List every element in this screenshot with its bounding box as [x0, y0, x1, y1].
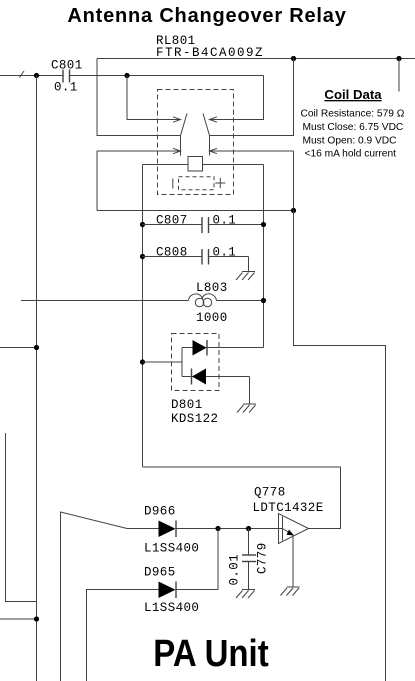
svg-text:Must Close: 6.75 VDC: Must Close: 6.75 VDC	[303, 122, 404, 133]
wire stub down from top right node	[398, 59, 400, 92]
node dot junction at 127	[124, 73, 129, 78]
wire top horizontal net	[97, 58, 415, 60]
diode D801 top	[182, 340, 264, 356]
ground for D801	[237, 404, 256, 413]
wire D801 bracket	[181, 348, 183, 377]
wire D965 up to junction	[176, 529, 218, 590]
svg-text:Must Open: 0.9 VDC: Must Open: 0.9 VDC	[303, 136, 397, 147]
svg-text:L1SS400: L1SS400	[144, 542, 199, 556]
svg-text:D965: D965	[144, 566, 176, 580]
coil polarity tick	[172, 179, 174, 189]
wire chain bottom to transistor collector	[143, 467, 341, 529]
capacitor C779	[228, 529, 270, 590]
node dot top at relay right	[291, 56, 296, 61]
capacitor C808	[140, 246, 249, 272]
ground for Q778 emitter	[281, 587, 300, 596]
svg-text:C779: C779	[256, 542, 270, 574]
wire arrow into left contact bottom	[97, 150, 180, 152]
wire arrow into right contact top	[210, 76, 264, 120]
arrowhead right top	[210, 117, 218, 122]
wire relay bottom rail	[97, 210, 294, 212]
svg-text:Coil Data: Coil Data	[324, 87, 382, 102]
wire relay common down right side	[294, 211, 386, 681]
wire left vertical long	[36, 76, 38, 681]
node dot D965 junction	[215, 526, 220, 531]
coil polarity plus sign	[215, 178, 225, 188]
svg-text:C801: C801	[51, 59, 83, 73]
wire arrow into right contact bottom	[210, 150, 294, 152]
ground for C808	[236, 272, 255, 281]
wire D801 common stub	[143, 361, 183, 363]
wire coil right vertical chain	[263, 165, 265, 348]
svg-text:L1SS400: L1SS400	[144, 601, 199, 615]
capacitor C801	[51, 59, 83, 95]
svg-text:1000: 1000	[196, 311, 228, 325]
inductor L803	[189, 281, 228, 325]
wire left small L	[6, 433, 37, 602]
arrowhead right bottom	[210, 148, 218, 153]
wire relay coil line	[143, 164, 264, 166]
svg-text:D966: D966	[144, 505, 176, 519]
node dot top right	[396, 56, 401, 61]
node dot D801 common	[140, 359, 145, 364]
wire D965 left vertical	[87, 590, 159, 681]
wire left edge stub bottom	[0, 618, 37, 620]
svg-text:C807: C807	[156, 214, 188, 228]
diode D965	[144, 566, 199, 616]
wire left edge stub mid	[0, 347, 37, 349]
svg-text:Coil Resistance: 579 Ω: Coil Resistance: 579 Ω	[301, 109, 405, 120]
svg-text:<16 mA hold current: <16 mA hold current	[305, 149, 397, 160]
diode D966	[144, 505, 199, 556]
arrowhead left bottom	[173, 148, 181, 153]
coil polarity dashed box	[179, 177, 215, 190]
diode D801 bottom	[182, 369, 250, 405]
svg-text:KDS122: KDS122	[171, 412, 218, 426]
node dot left	[34, 73, 39, 78]
relay RL801 dashed body	[158, 90, 234, 195]
node dot C779 junction	[246, 526, 251, 531]
svg-text:C808: C808	[156, 246, 188, 260]
wire L803 line from left edge	[21, 300, 189, 302]
wire relay right common (top node to right contact middle)	[210, 59, 294, 136]
node dot left bottom	[34, 616, 39, 621]
wire C801 input line	[0, 75, 63, 77]
wire L803 to right chain	[216, 300, 263, 302]
svg-text:0.1: 0.1	[213, 214, 237, 228]
node dot left mid	[34, 345, 39, 350]
wire arrow into left contact top	[127, 76, 180, 120]
wire relay left common (top wire to left contact middle)	[97, 59, 181, 136]
relay right contact blade	[203, 114, 210, 156]
wire D966 to transistor base	[176, 528, 283, 530]
relay coil square	[188, 157, 203, 172]
wire C801 to relay	[70, 75, 264, 77]
ground for C779	[236, 590, 255, 599]
svg-text:LDTC1432E: LDTC1432E	[253, 501, 324, 515]
coil data block	[301, 87, 405, 160]
svg-text:PA Unit: PA Unit	[153, 632, 269, 675]
svg-text:L803: L803	[196, 281, 228, 295]
wire left bottom arrow to bottom rail	[96, 151, 98, 211]
svg-text:0.1: 0.1	[213, 246, 237, 260]
wire right bottom arrow down to bottom rail	[293, 151, 295, 211]
wire D966 slanted input	[61, 512, 159, 681]
node dot bottom rail right	[291, 208, 296, 213]
wire coil left vertical chain	[142, 165, 144, 468]
svg-text:0.1: 0.1	[54, 81, 78, 95]
svg-text:FTR-B4CA009Z: FTR-B4CA009Z	[156, 46, 264, 60]
tick break mark	[20, 71, 25, 78]
svg-text:Q778: Q778	[254, 486, 286, 500]
node dot L803 right	[261, 298, 266, 303]
capacitor C807	[140, 214, 266, 234]
diode pair D801 dashed box	[172, 334, 220, 391]
svg-text:0.01: 0.01	[228, 554, 242, 586]
arrowhead left top	[173, 117, 181, 122]
relay left contact blade	[181, 114, 188, 156]
transistor Q778	[253, 486, 324, 588]
svg-text:D801: D801	[171, 398, 203, 412]
svg-text:Antenna Changeover Relay: Antenna Changeover Relay	[67, 5, 346, 27]
